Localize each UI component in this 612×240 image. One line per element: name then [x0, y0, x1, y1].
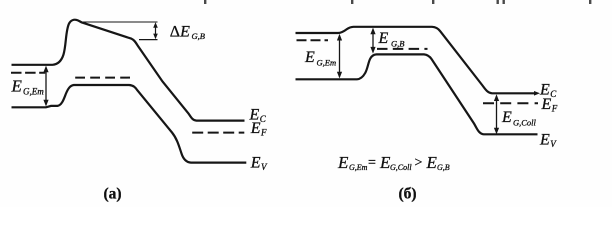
svg-text:E: E — [541, 96, 552, 113]
panel (a) conduction band Ec curve — [12, 20, 245, 121]
panel (b) Ec line end arrowhead — [534, 91, 540, 96]
svg-text:F: F — [260, 128, 267, 138]
panel (b) Fermi level dashed, emitter — [297, 39, 329, 41]
svg-text:E: E — [250, 155, 261, 172]
svg-text:G,Em: G,Em — [23, 87, 44, 97]
panel (b) Eg,B double arrow — [370, 28, 375, 54]
panel (a) valence band Ev curve — [12, 85, 247, 163]
svg-text:E: E — [11, 77, 23, 96]
svg-text:C: C — [550, 89, 557, 99]
svg-text:E: E — [337, 153, 349, 172]
panel (b) Fermi level dashed, collector — [483, 102, 538, 104]
svg-text:E: E — [501, 109, 512, 126]
panel (a) Eg,Em double arrow — [43, 66, 48, 107]
svg-text:(б): (б) — [399, 185, 417, 202]
svg-text:V: V — [261, 162, 268, 172]
panel (b) Fermi level dashed, base — [377, 48, 428, 50]
svg-text:G,B: G,B — [437, 163, 450, 172]
svg-text:G,Em: G,Em — [317, 57, 337, 67]
svg-text:G,B: G,B — [391, 39, 404, 49]
svg-text:(a): (a) — [104, 185, 122, 202]
panel (b) Eg,Em double arrow — [337, 34, 342, 79]
svg-text:G,Coll: G,Coll — [513, 117, 537, 127]
panel (a) Fermi level dashed, base — [75, 77, 131, 79]
panel (b) formula Eg,Em = Eg,Coll > Eg,B — [337, 153, 450, 172]
svg-text:G,Em: G,Em — [349, 163, 368, 172]
panel (b) conduction band Ec curve — [296, 27, 537, 94]
svg-text:E: E — [426, 153, 438, 172]
panel (a) delta-Eg arrow bottom bar — [139, 39, 158, 41]
svg-text:E: E — [304, 49, 315, 66]
panel (a) Fermi level dashed, collector — [192, 132, 244, 134]
svg-text:E: E — [539, 131, 550, 148]
panel (b) Eg,Coll double arrow — [494, 94, 499, 134]
panel (a) Fermi level dashed, emitter — [11, 72, 45, 74]
panel (a) delta-Eg double arrow — [153, 22, 158, 39]
panel (b) valence band Ev curve — [296, 54, 538, 134]
svg-text:E: E — [250, 120, 261, 137]
panel (a) thin ruler line from spike peak — [83, 21, 158, 23]
top cropped text remnant marks — [204, 0, 591, 4]
svg-text:>: > — [415, 156, 423, 171]
svg-text:ΔE: ΔE — [170, 24, 190, 41]
svg-text:G,Coll: G,Coll — [390, 163, 412, 172]
svg-text:E: E — [378, 30, 389, 47]
svg-text:C: C — [260, 114, 267, 124]
svg-text:F: F — [551, 103, 558, 113]
svg-text:V: V — [550, 139, 557, 149]
svg-text:=: = — [368, 156, 376, 171]
svg-text:G,B: G,B — [192, 31, 205, 41]
